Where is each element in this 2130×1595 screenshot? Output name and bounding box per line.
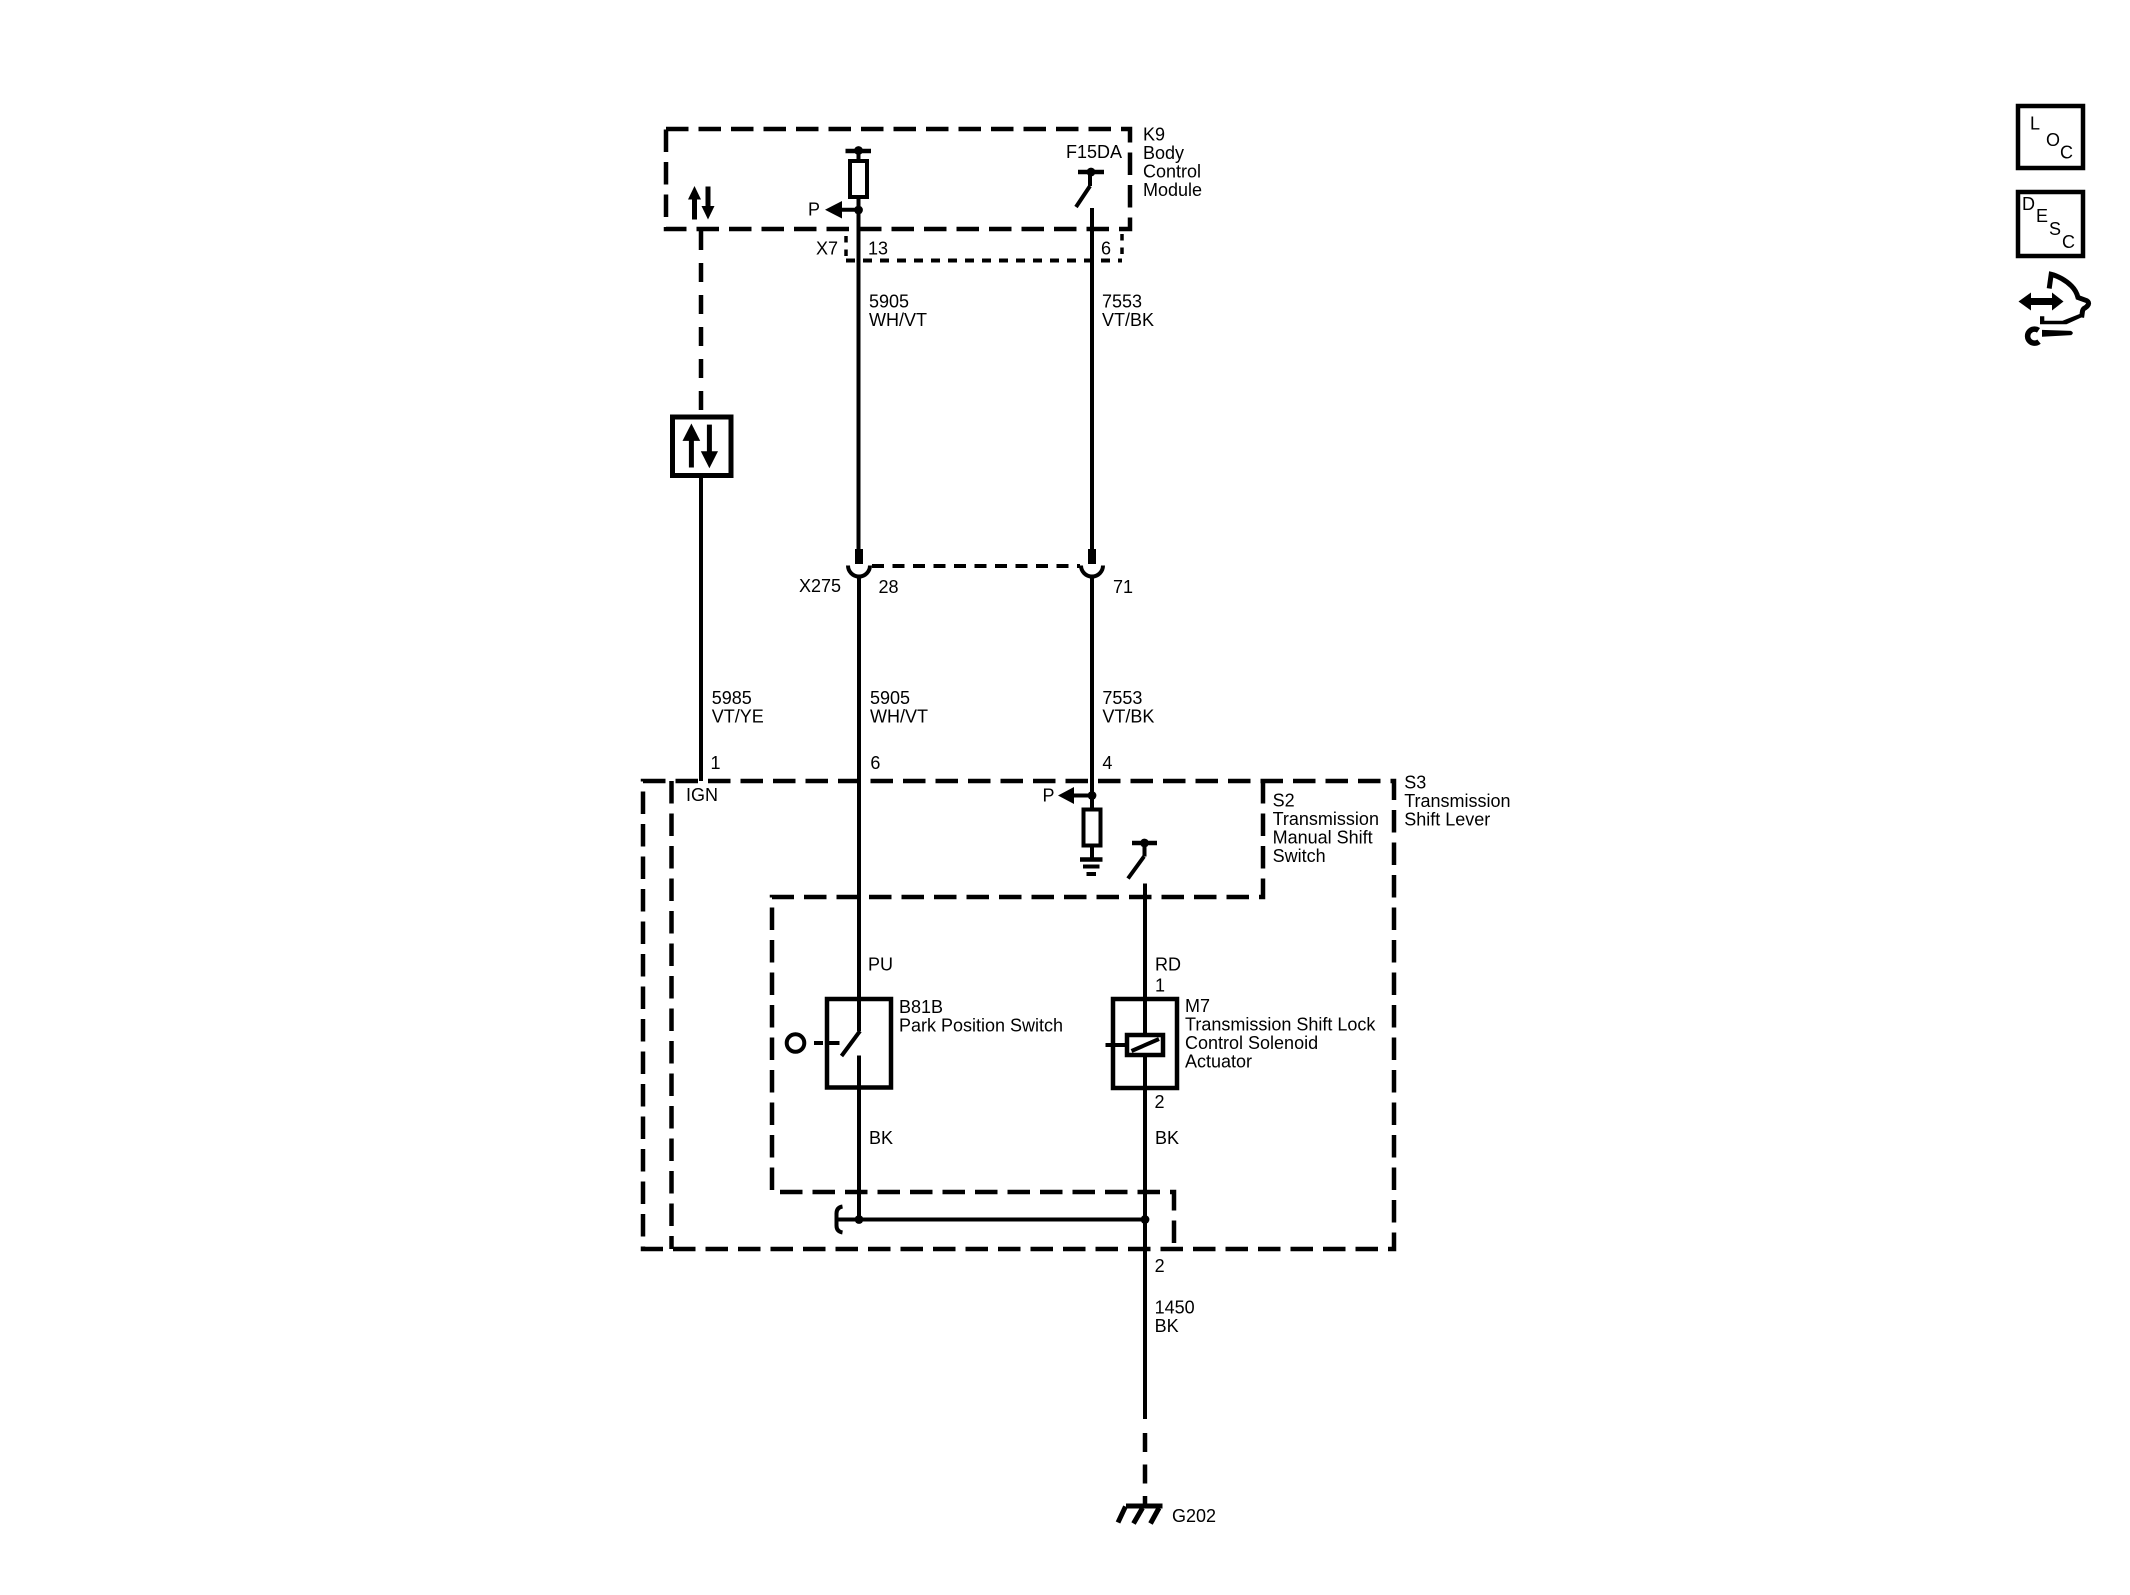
connector-repair icon: terminal lower bar (2040, 314, 2082, 325)
down arrow in box (707, 425, 712, 453)
off-page reference box with up/down arrows (673, 417, 732, 476)
svg-text:28: 28 (879, 577, 899, 597)
svg-text:F15DA: F15DA (1066, 142, 1122, 162)
M7 solenoid coil box (1127, 1035, 1163, 1055)
connector-repair icon: terminal outline (2049, 274, 2088, 317)
resistor R body (850, 161, 867, 197)
solenoid diagonal (1132, 1039, 1160, 1051)
junction dot (854, 206, 863, 215)
svg-text:P: P (808, 200, 820, 220)
svg-text:S: S (2049, 219, 2061, 239)
connector-repair icon: wrench handle (2042, 330, 2073, 337)
ground G202 symbol (1118, 1506, 1163, 1524)
K9 label text (1143, 125, 1202, 201)
splice dot left (855, 1215, 864, 1224)
S2 dashed boundary right/bottom with inner cutout (772, 781, 1263, 1249)
svg-text:X275: X275 (799, 576, 841, 596)
ground symbol (S2 internal) (1080, 860, 1103, 875)
svg-text:IGN: IGN (686, 785, 718, 805)
contact dot (1140, 839, 1149, 848)
svg-text:1: 1 (711, 753, 721, 773)
module K9 dashed outline box (666, 129, 1130, 229)
svg-text:5985: 5985 (712, 688, 752, 708)
svg-text:G202: G202 (1172, 1506, 1216, 1526)
splice dot right (1141, 1215, 1150, 1224)
contact stub (1143, 845, 1147, 857)
svg-text:M7: M7 (1185, 996, 1210, 1016)
svg-text:PU: PU (868, 955, 893, 975)
wire 7553 from X275 down to S2 pin 4 (1090, 578, 1094, 796)
S3 label text (1404, 773, 1510, 830)
wire BK from M7 down through S3 box (1143, 1055, 1147, 1419)
off-page up arrow inside K9 (688, 186, 701, 220)
S2 label text (1273, 790, 1379, 866)
switch S2 fixed contact bar (1132, 841, 1157, 846)
svg-text:71: 71 (1113, 577, 1133, 597)
connector-repair icon: double arrow (2019, 293, 2064, 311)
svg-text:5905: 5905 (869, 291, 909, 311)
svg-text:1: 1 (1155, 976, 1165, 996)
svg-text:4: 4 (1102, 753, 1112, 773)
svg-text:Body: Body (1143, 143, 1184, 163)
M7 label text (1185, 996, 1376, 1072)
dashed wire to G202 (1143, 1433, 1148, 1506)
svg-text:VT/YE: VT/YE (712, 706, 764, 726)
svg-text:Module: Module (1143, 180, 1202, 200)
svg-text:Actuator: Actuator (1185, 1052, 1252, 1072)
in-line connector X275 pin 28 terminal (855, 549, 863, 564)
svg-text:1450: 1450 (1155, 1297, 1195, 1317)
svg-text:S3: S3 (1404, 773, 1426, 793)
svg-text:13: 13 (868, 239, 888, 259)
svg-text:D: D (2022, 194, 2035, 214)
wire junction to resistor (1090, 796, 1094, 811)
svg-text:P: P (1043, 785, 1055, 805)
svg-text:Control: Control (1143, 162, 1201, 182)
svg-text:BK: BK (1155, 1316, 1179, 1336)
terminal dot on bar (854, 146, 863, 155)
DESC reference box (2018, 192, 2083, 256)
svg-text:Switch: Switch (1273, 846, 1326, 866)
dashed wire from K9 to off-page symbol (699, 231, 704, 417)
svg-text:7553: 7553 (1102, 688, 1142, 708)
svg-text:Manual Shift: Manual Shift (1273, 827, 1373, 847)
svg-text:Transmission Shift Lock: Transmission Shift Lock (1185, 1015, 1376, 1035)
svg-text:B81B: B81B (899, 997, 943, 1017)
svg-text:O: O (2046, 130, 2060, 150)
wire resistor to junction (857, 197, 861, 212)
svg-text:VT/BK: VT/BK (1102, 310, 1154, 330)
svg-text:BK: BK (869, 1128, 893, 1148)
svg-text:2: 2 (1155, 1256, 1165, 1276)
svg-text:BK: BK (1155, 1128, 1179, 1148)
wire 5985 from box to S3 pin 1 (699, 476, 703, 781)
B81B left contact stub (827, 1041, 840, 1045)
up arrow in box (689, 439, 694, 468)
svg-text:Shift Lever: Shift Lever (1404, 810, 1490, 830)
P signal arrow (K9) (825, 201, 859, 219)
switch F15DA fixed contact bar (1078, 170, 1104, 175)
component S3 dashed outline box (643, 781, 1394, 1249)
M7 left stub (1106, 1043, 1128, 1047)
wire 5905 from X275 down into S3 to B81B (857, 578, 861, 1032)
svg-text:K9: K9 (1143, 125, 1165, 145)
svg-text:Park Position Switch: Park Position Switch (899, 1016, 1063, 1036)
off-page down arrow inside K9 (702, 187, 715, 220)
svg-text:WH/VT: WH/VT (870, 706, 928, 726)
svg-text:Control Solenoid: Control Solenoid (1185, 1033, 1318, 1053)
LOC reference box (2018, 106, 2083, 168)
svg-text:RD: RD (1155, 955, 1181, 975)
actuator M7 box (1113, 999, 1177, 1088)
svg-text:6: 6 (1101, 239, 1111, 259)
B81B label text (899, 997, 1063, 1036)
connector X7 dotted box (846, 234, 1122, 261)
svg-text:7553: 7553 (1102, 291, 1142, 311)
wire 7553 from switch down to connector X275 (1090, 208, 1094, 549)
splice jumper wire (838, 1218, 1145, 1222)
svg-text:2: 2 (1155, 1092, 1165, 1112)
connector-repair icon: wrench jaw (2028, 329, 2039, 343)
svg-text:VT/BK: VT/BK (1102, 706, 1154, 726)
B81B switch blade (842, 1031, 861, 1056)
P signal arrow (S2) (1058, 787, 1092, 804)
svg-text:X7: X7 (816, 239, 838, 259)
svg-text:E: E (2036, 206, 2048, 226)
svg-text:6: 6 (870, 753, 880, 773)
S2 left dashed edge (669, 781, 674, 1249)
switch B81B box (827, 999, 891, 1088)
wire RD from switch to M7 (1143, 884, 1147, 1036)
switch blade (open) (1076, 186, 1090, 207)
resistor in S2 (1084, 810, 1101, 846)
svg-text:5905: 5905 (870, 688, 910, 708)
svg-text:WH/VT: WH/VT (869, 310, 927, 330)
B81B lower contact wire down to splice (857, 1056, 861, 1220)
wire resistor to ground (1090, 846, 1094, 859)
junction dot pin4 (1088, 791, 1097, 800)
mechanical link dash (814, 1041, 823, 1045)
resistor (sensed P circuit) in K9 top terminal bar (846, 149, 872, 154)
wire stub bar to resistor (857, 151, 861, 162)
mechanical link circle (787, 1034, 805, 1052)
svg-text:C: C (2062, 232, 2075, 252)
contact stub (1088, 174, 1092, 186)
svg-text:S2: S2 (1273, 790, 1295, 810)
svg-text:L: L (2030, 114, 2040, 134)
in-line connector X275 pin 71 terminal (1088, 549, 1096, 564)
X275 harness dashed line (872, 564, 1080, 568)
svg-text:Transmission: Transmission (1273, 809, 1379, 829)
contact dot (1087, 168, 1096, 177)
svg-text:Transmission: Transmission (1404, 791, 1510, 811)
wire 5905 from K9 pin 13 down to connector X275 (857, 212, 861, 549)
splice hook (837, 1207, 843, 1233)
switch blade (open) (1128, 857, 1144, 879)
svg-text:C: C (2060, 143, 2073, 163)
